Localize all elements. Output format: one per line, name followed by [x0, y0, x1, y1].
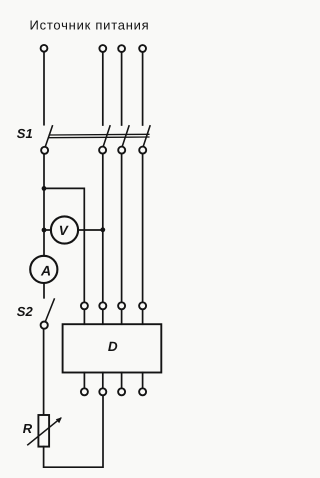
node voltmeter right junction: [100, 227, 105, 232]
S1 pole2 contact circle: [99, 147, 106, 154]
S1 pole1 contact circle: [41, 147, 48, 154]
D bottom pin7 circle: [118, 388, 125, 395]
S1 pole2 blade: [103, 126, 110, 146]
D top pin2 circle: [99, 302, 106, 309]
S1 pole3 contact circle: [118, 147, 125, 154]
terminal 2: [99, 45, 106, 52]
D top pin4 circle: [139, 302, 146, 309]
S1 coupling bar lower: [49, 136, 149, 139]
D bottom pin7 stub: [121, 373, 123, 388]
wire S1 pole3 down to D pin3: [121, 154, 123, 302]
S1 coupling bar upper: [49, 133, 148, 136]
ammeter A circle: [30, 256, 57, 283]
S2 blade: [46, 299, 55, 321]
wire voltmeter right: [78, 229, 103, 231]
svg-text:S2: S2: [17, 304, 34, 319]
node junction at tap: [42, 186, 47, 191]
S1 pole4 contact circle: [139, 147, 146, 154]
svg-text:V: V: [59, 223, 69, 238]
terminal 3: [118, 45, 125, 52]
D top pin2 stub: [102, 310, 104, 324]
svg-text:S1: S1: [17, 126, 33, 141]
voltmeter V circle: [51, 216, 78, 243]
resistor R body: [38, 415, 49, 447]
D bottom pin8 circle: [139, 388, 146, 395]
D top pin3 circle: [118, 302, 125, 309]
D bottom pin5 stub: [83, 373, 85, 388]
resistor R variable arrow: [28, 418, 61, 445]
D top pin3 stub: [121, 310, 123, 324]
wire terminal1 to S1 pole1: [43, 52, 45, 124]
svg-text:A: A: [40, 262, 51, 278]
D bottom pin6 circle: [99, 388, 106, 395]
D top pin1 circle: [81, 302, 88, 309]
S1 pole3 blade: [122, 126, 129, 146]
node voltmeter left junction: [42, 228, 47, 233]
wire voltmeter left: [44, 229, 51, 231]
wire S1 pole4 down to D pin4: [142, 154, 144, 302]
S1 pole1 blade: [45, 126, 52, 147]
S2 contact circle: [41, 322, 48, 329]
wire tap corner to D pin1: [44, 188, 84, 301]
block D box: [63, 324, 162, 372]
wire terminal2 to S1 pole2: [102, 53, 104, 125]
svg-text:R: R: [23, 421, 33, 436]
svg-text:Источник питания: Источник питания: [30, 17, 150, 32]
wire S1 pole1 down to ammeter: [43, 154, 45, 256]
svg-text:D: D: [108, 339, 118, 354]
wire S1 pole2 down to D pin2: [102, 154, 104, 302]
D top pin4 stub: [142, 310, 144, 324]
D bottom pin8 stub: [142, 373, 144, 388]
wire terminal3 to S1 pole3: [121, 53, 123, 125]
D top pin1 stub: [83, 310, 85, 324]
D bottom pin6 stub: [102, 373, 104, 388]
S1 pole4 blade: [143, 126, 150, 146]
wire S2 to resistor R: [43, 329, 45, 414]
terminal 4: [139, 45, 146, 52]
wire ammeter to S2: [43, 283, 45, 298]
wire terminal4 to S1 pole4: [142, 53, 144, 125]
terminal 1 (top left): [41, 45, 48, 52]
wire resistor bottom to D pin6: [44, 396, 103, 467]
D bottom pin5 circle: [81, 388, 88, 395]
